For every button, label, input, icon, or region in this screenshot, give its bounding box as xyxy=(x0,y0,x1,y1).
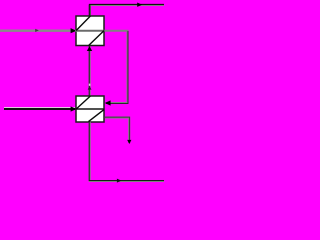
wire: right vertical down to U2 right input xyxy=(106,31,128,103)
wire: top output line from U1 top-center up and right to edge xyxy=(89,4,164,16)
wire: left input line to U1 xyxy=(0,30,75,32)
U1 mid chord xyxy=(75,30,105,32)
U2 upper diagonal xyxy=(76,96,90,109)
wire: U2 bottom output down and right to edge xyxy=(89,122,164,181)
arrow: flow arrow mid inter-box wire (pointing up) xyxy=(89,84,91,86)
converter U2 (box with step-diagonal symbol) xyxy=(76,96,105,122)
wire: left input line to U2 (black with light top halo) xyxy=(4,108,75,109)
wire: U2 lower right output to down arrow xyxy=(105,117,130,143)
arrow: into U2 left edge xyxy=(71,106,77,111)
U1 upper diagonal xyxy=(76,16,90,31)
converter U1 (box with step-diagonal symbol) xyxy=(75,16,105,46)
arrow: into U2 right edge xyxy=(105,100,111,105)
wire: vertical between U2 top and U1 bottom xyxy=(88,46,91,96)
arrow: flow arrow on bottom line xyxy=(117,179,121,183)
U2 lower diagonal xyxy=(89,110,105,122)
arrow: flow arrow on left input line xyxy=(35,29,39,32)
arrow: into U1 bottom edge (pointing up) xyxy=(87,46,92,51)
arrow: into U1 left edge xyxy=(71,28,77,33)
arrow: dangling output arrow (pointing down) xyxy=(127,140,131,144)
U1 lower diagonal xyxy=(89,31,105,46)
wire: U1 right output to right vertical bus xyxy=(105,30,129,32)
U2 mid chord xyxy=(76,108,105,110)
arrow: flow arrow on top line xyxy=(137,3,142,7)
